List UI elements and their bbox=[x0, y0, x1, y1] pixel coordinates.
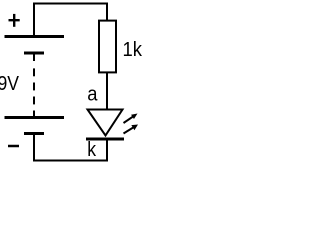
battery BT1: short plate (cell 2, negative) bbox=[24, 132, 44, 135]
battery BT1: - polarity mark bbox=[8, 145, 19, 148]
svg-text:1k: 1k bbox=[123, 39, 143, 61]
battery BT1: dashed multi-cell link bbox=[33, 54, 35, 117]
wire: battery + terminal up and top rail to resistor lead bbox=[34, 4, 107, 38]
wire: LED cathode down, bottom rail, and up to battery - terminal bbox=[34, 135, 107, 161]
battery BT1: + polarity mark bbox=[9, 14, 20, 27]
LED D1: cathode bar bbox=[86, 138, 124, 141]
battery BT1: long plate (cell 2, positive) bbox=[5, 116, 65, 119]
resistor R1 body bbox=[99, 21, 116, 73]
battery BT1: short plate (cell 1, negative) bbox=[24, 52, 44, 55]
LED D1: light emission arrow (lower) bbox=[124, 125, 139, 134]
svg-text:a: a bbox=[87, 84, 98, 106]
LED D1: light emission arrow (upper) bbox=[124, 114, 138, 124]
battery BT1: long plate (cell 1, positive) bbox=[5, 35, 65, 38]
svg-text:9V: 9V bbox=[0, 73, 20, 95]
wire: resistor R1 bottom lead to LED anode bbox=[106, 72, 108, 110]
svg-text:k: k bbox=[87, 139, 97, 161]
LED D1: anode triangle bbox=[88, 110, 123, 136]
